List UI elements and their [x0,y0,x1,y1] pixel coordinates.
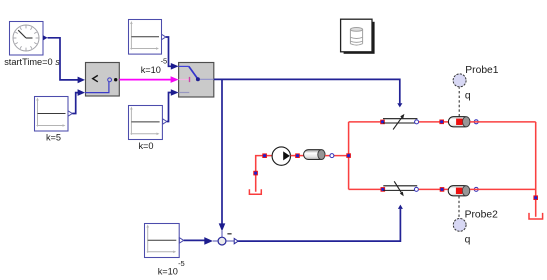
svg-text:q: q [465,234,471,245]
wire branch switch1.y to feedback.u2 [221,79,223,223]
switch block switch1 [179,63,214,98]
medium/storage icon [341,19,375,54]
port ring hose.portB [330,154,334,158]
constant block const10a k=10^-5 (top) [129,20,166,55]
flow sensor1 [448,117,470,127]
svg-text:startTime=0 s: startTime=0 s [4,57,60,67]
port ring sensor2.portB [474,187,478,191]
svg-text:-5: -5 [161,56,168,65]
port square pump.portA [262,153,267,158]
port square sensor1.portA [439,120,444,125]
red wire sensor2 to right manifold [470,188,536,190]
svg-text:k=0: k=0 [138,141,153,151]
probe1 [453,74,466,117]
constant block const0 k=0 [129,106,167,140]
port square valve2.portA [381,187,386,192]
tank2 [529,213,543,219]
red hydraulic wire pump suction to tank1 [256,156,272,192]
port ring valve1.portB [415,120,419,124]
svg-text:Probe2: Probe2 [465,209,498,220]
boolean wire less1.y to switch1.u2 [119,79,171,81]
red wire pump to hose [291,155,304,157]
constant block const5 k=5 [35,97,73,132]
wire const10b.y to feedback.u1 [184,239,205,241]
red wire sensor1 to right manifold [470,121,536,123]
port square pump.portB [295,153,300,158]
hose/pipe volume V1 [304,150,325,160]
tank1 [249,189,261,194]
svg-text:k=5: k=5 [46,133,61,143]
port square tank1 [253,171,258,176]
red wire hose to junction [325,155,349,157]
red wire lower branch to valve2 [349,188,383,190]
wire switch1.y to valve1 control [214,79,400,103]
red wire upper branch to valve1 [349,121,383,123]
wire const5.y to less.u2 [72,93,78,114]
port square sensor2.portA [440,187,445,192]
clock source block clock1 [10,22,48,56]
port square junction [346,153,351,158]
wire clock1.y to less.u1 [48,38,79,80]
wire feedback1.y to valve2 control [238,209,400,241]
pump P1 [272,147,290,165]
probe2 [453,196,466,231]
feedback block feedback1 [213,231,238,245]
red wire manifold vertical [348,122,350,189]
valve1 variable restrictor [383,114,417,130]
svg-text:k=10: k=10 [158,266,178,276]
wire const10a.y to switch1.u1 [166,37,171,66]
less comparator block less1 [85,63,119,97]
port square valve1.portA [380,120,385,125]
red wire valve2 to sensor2 [419,188,449,190]
valve2 variable restrictor [383,181,417,196]
constant block const10b k=10^-5 (bottom) [145,224,184,258]
port ring valve2.portB [414,187,418,191]
svg-text:Probe1: Probe1 [465,65,498,76]
port square tank2 [533,195,538,200]
svg-text:k=10: k=10 [141,65,161,75]
svg-text:q: q [465,90,471,101]
svg-text:-5: -5 [178,259,185,268]
red wire valve1 to sensor1 [419,121,449,123]
flow sensor2 [448,186,470,196]
red wire right manifold vertical to tank2 [535,122,537,217]
wire const0.y to switch1.u3 [167,93,171,122]
port ring sensor1.portB [474,120,478,124]
